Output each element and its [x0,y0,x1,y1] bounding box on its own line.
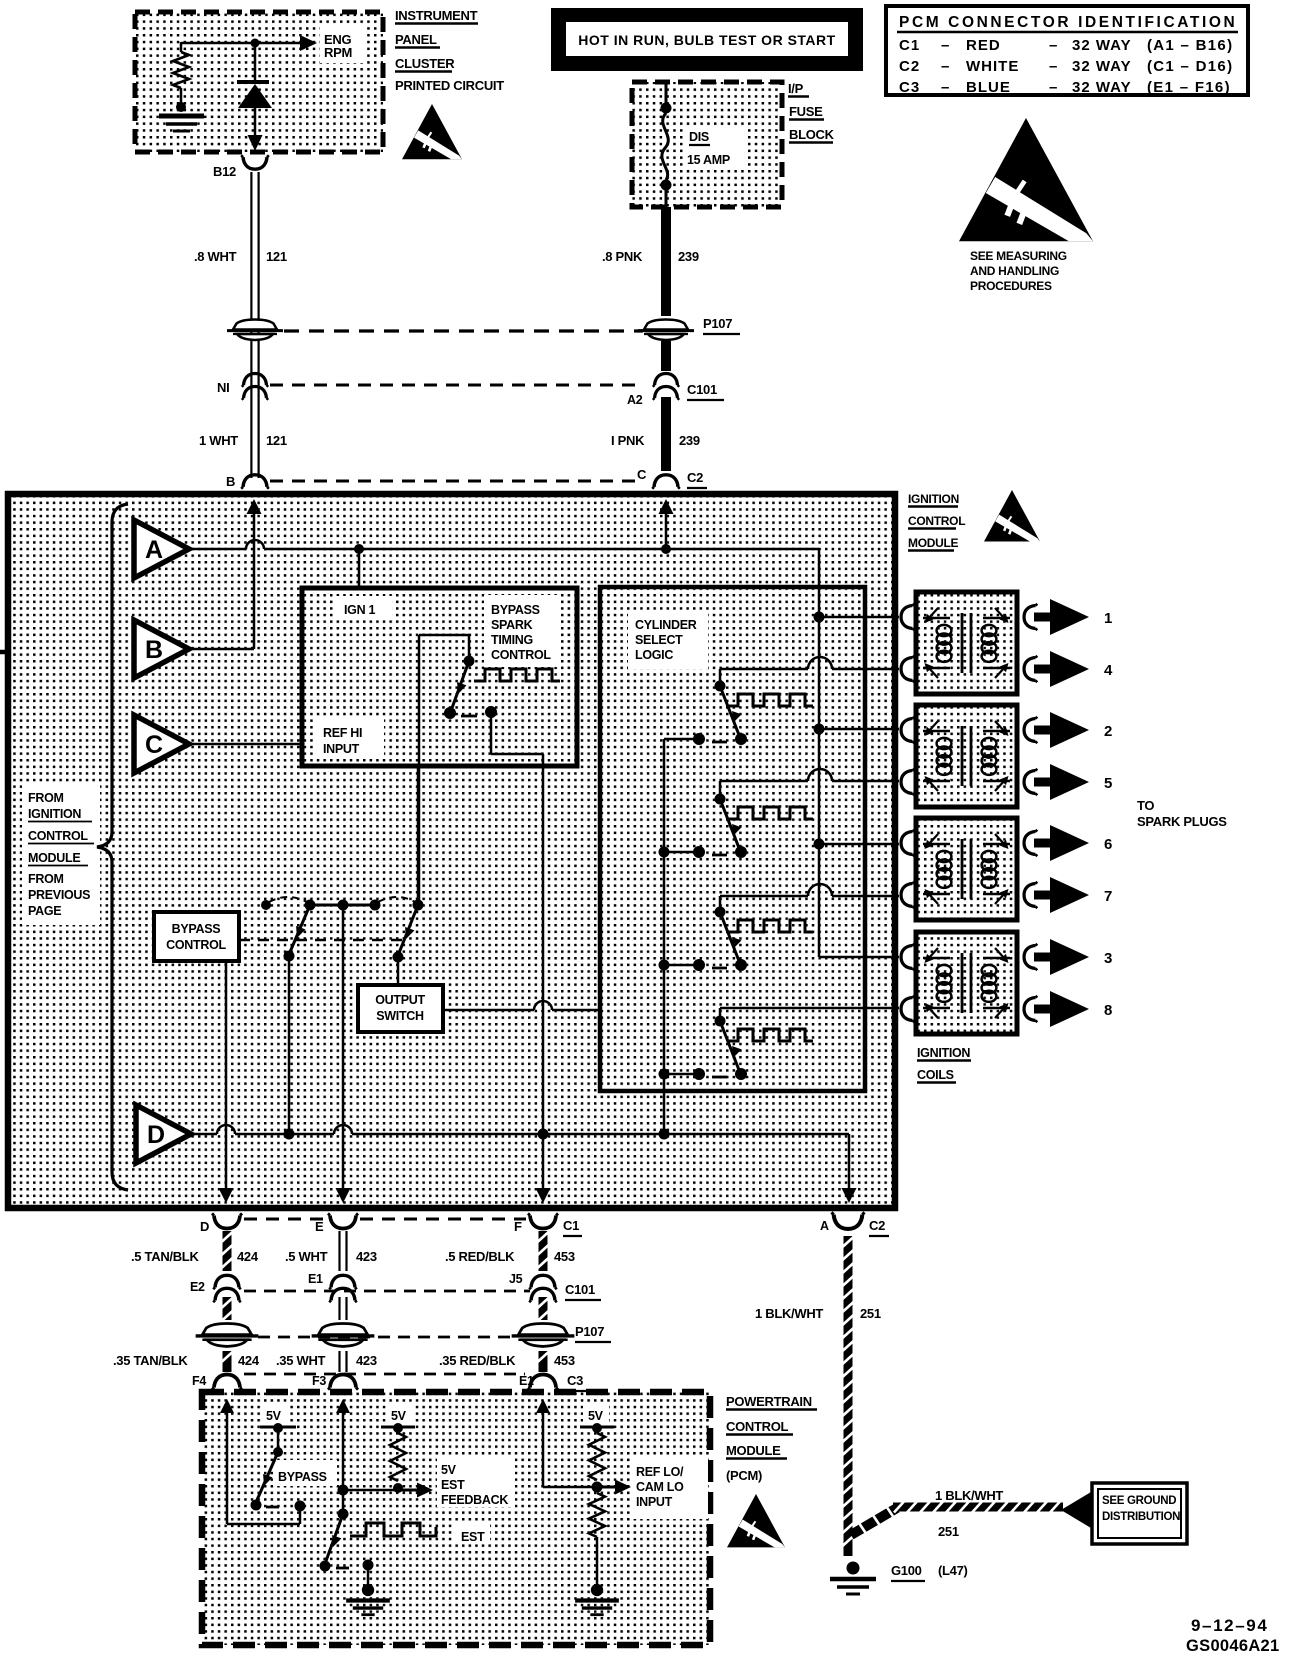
svg-text:INSTRUMENT: INSTRUMENT [395,8,478,23]
svg-text:FEEDBACK: FEEDBACK [441,1493,508,1507]
svg-text:9–12–94: 9–12–94 [1191,1616,1268,1635]
svg-text:DISTRIBUTION: DISTRIBUTION [1102,1511,1180,1523]
svg-text:(A1 – B16): (A1 – B16) [1147,37,1233,54]
svg-text:MODULE: MODULE [908,536,958,550]
svg-text:B: B [226,474,235,489]
svg-text:E2: E2 [190,1280,205,1294]
svg-text:239: 239 [678,249,699,264]
svg-text:C1: C1 [899,37,920,54]
svg-text:C3: C3 [899,79,920,96]
svg-text:CLUSTER: CLUSTER [395,56,455,71]
svg-text:F4: F4 [192,1374,206,1388]
svg-text:A2: A2 [627,393,643,407]
svg-text:INPUT: INPUT [636,1495,673,1509]
svg-text:B12: B12 [213,164,236,179]
svg-text:239: 239 [679,433,700,448]
svg-text:CONTROL: CONTROL [28,829,88,843]
svg-text:FROM: FROM [28,791,64,805]
svg-text:.35 WHT: .35 WHT [276,1353,326,1368]
svg-text:RED: RED [966,37,1001,54]
svg-text:15 AMP: 15 AMP [687,153,730,167]
svg-text:POWERTRAIN: POWERTRAIN [726,1394,812,1409]
svg-text:MODULE: MODULE [726,1443,781,1458]
svg-text:PAGE: PAGE [28,904,61,918]
svg-text:453: 453 [554,1249,575,1264]
svg-text:E1: E1 [308,1272,323,1286]
svg-text:D: D [147,1121,165,1149]
svg-text:5V: 5V [441,1463,457,1477]
svg-text:SEE GROUND: SEE GROUND [1102,1495,1176,1507]
svg-text:EST: EST [441,1478,465,1492]
svg-text:P107: P107 [703,316,732,331]
svg-text:CONTROL: CONTROL [726,1419,789,1434]
svg-text:.8 PNK: .8 PNK [602,249,643,264]
svg-text:DIS: DIS [689,130,709,144]
svg-text:C3: C3 [567,1373,583,1388]
svg-text:.5 RED/BLK: .5 RED/BLK [445,1249,515,1264]
svg-text:IGN 1: IGN 1 [344,603,375,617]
svg-text:1 BLK/WHT: 1 BLK/WHT [935,1488,1003,1503]
svg-text:IGNITION: IGNITION [917,1046,970,1060]
svg-text:FROM: FROM [28,872,64,886]
svg-text:32 WAY: 32 WAY [1072,79,1132,96]
svg-text:REF LO/: REF LO/ [636,1465,684,1479]
svg-text:.5 WHT: .5 WHT [285,1249,328,1264]
svg-text:A: A [145,536,163,564]
svg-text:–: – [941,37,949,54]
svg-text:1 WHT: 1 WHT [199,433,238,448]
svg-text:J5: J5 [509,1272,523,1286]
svg-text:TO: TO [1137,798,1154,813]
svg-text:E: E [315,1219,324,1234]
svg-text:NI: NI [217,380,229,395]
svg-text:EST: EST [461,1530,485,1544]
svg-text:TIMING: TIMING [491,633,533,647]
svg-text:C: C [145,731,163,759]
svg-text:SELECT: SELECT [635,633,683,647]
svg-text:251: 251 [938,1524,959,1539]
svg-text:8: 8 [1104,1002,1112,1019]
svg-text:SWITCH: SWITCH [376,1009,424,1023]
svg-text:424: 424 [237,1249,259,1264]
svg-text:5V: 5V [588,1409,604,1423]
svg-text:PROCEDURES: PROCEDURES [970,279,1052,293]
svg-text:G100: G100 [891,1563,922,1578]
svg-text:–: – [941,58,949,75]
svg-text:5: 5 [1104,775,1112,792]
svg-text:.8 WHT: .8 WHT [194,249,237,264]
svg-text:PREVIOUS: PREVIOUS [28,888,90,902]
svg-text:WHITE: WHITE [966,58,1019,75]
svg-text:SPARK PLUGS: SPARK PLUGS [1137,814,1227,829]
svg-text:.35 TAN/BLK: .35 TAN/BLK [113,1353,188,1368]
svg-text:251: 251 [860,1306,881,1321]
svg-text:SEE MEASURING: SEE MEASURING [970,249,1067,263]
svg-text:IGNITION: IGNITION [28,807,81,821]
svg-text:I PNK: I PNK [611,433,645,448]
svg-text:E1: E1 [519,1374,534,1388]
svg-text:BYPASS: BYPASS [172,922,221,936]
svg-text:3: 3 [1104,950,1112,967]
svg-text:C2: C2 [869,1218,885,1233]
svg-text:423: 423 [356,1353,377,1368]
svg-text:BLOCK: BLOCK [789,127,835,142]
svg-text:C101: C101 [565,1282,595,1297]
svg-text:AND HANDLING: AND HANDLING [970,264,1059,278]
svg-text:(PCM): (PCM) [726,1468,762,1483]
svg-text:423: 423 [356,1249,377,1264]
svg-text:CONTROL: CONTROL [491,648,551,662]
svg-text:–: – [1049,37,1057,54]
svg-text:OUTPUT: OUTPUT [375,993,425,1007]
svg-text:121: 121 [266,433,287,448]
svg-text:(C1 – D16): (C1 – D16) [1147,58,1233,75]
svg-text:P107: P107 [575,1324,604,1339]
svg-text:7: 7 [1104,888,1112,905]
svg-text:–: – [1049,58,1057,75]
svg-text:D: D [200,1219,209,1234]
svg-text:2: 2 [1104,723,1112,740]
svg-text:LOGIC: LOGIC [635,648,673,662]
svg-text:A: A [820,1219,829,1233]
svg-text:FUSE: FUSE [789,104,823,119]
svg-text:–: – [941,79,949,96]
svg-text:C2: C2 [687,470,703,485]
svg-text:BYPASS: BYPASS [491,603,540,617]
svg-text:.5 TAN/BLK: .5 TAN/BLK [131,1249,199,1264]
svg-text:SPARK: SPARK [491,618,533,632]
svg-text:121: 121 [266,249,287,264]
svg-text:RPM: RPM [324,45,352,60]
svg-text:COILS: COILS [917,1068,954,1082]
svg-text:4: 4 [1104,662,1113,679]
svg-text:PANEL: PANEL [395,32,437,47]
svg-text:MODULE: MODULE [28,851,80,865]
svg-text:B: B [145,636,163,664]
svg-text:IGNITION: IGNITION [908,492,959,506]
svg-text:CONTROL: CONTROL [908,514,965,528]
svg-text:PRINTED CIRCUIT: PRINTED CIRCUIT [395,78,504,93]
svg-text:.35 RED/BLK: .35 RED/BLK [439,1353,516,1368]
svg-text:C: C [637,467,647,482]
svg-text:CYLINDER: CYLINDER [635,618,697,632]
svg-text:(L47): (L47) [938,1563,968,1578]
svg-text:32 WAY: 32 WAY [1072,37,1132,54]
svg-text:424: 424 [238,1353,260,1368]
svg-text:CONTROL: CONTROL [166,938,226,952]
svg-text:HOT IN RUN, BULB TEST OR START: HOT IN RUN, BULB TEST OR START [578,32,835,48]
svg-text:453: 453 [554,1353,575,1368]
svg-text:5V: 5V [391,1409,407,1423]
svg-text:5V: 5V [266,1409,282,1423]
svg-text:INPUT: INPUT [323,742,360,756]
svg-text:C2: C2 [899,58,920,75]
svg-text:I/P: I/P [788,81,804,96]
svg-text:REF HI: REF HI [323,726,362,740]
svg-text:1 BLK/WHT: 1 BLK/WHT [755,1306,823,1321]
svg-text:BYPASS: BYPASS [278,1470,327,1484]
svg-text:F3: F3 [312,1374,326,1388]
svg-text:32 WAY: 32 WAY [1072,58,1132,75]
svg-text:6: 6 [1104,836,1112,853]
svg-text:GS0046A21: GS0046A21 [1186,1637,1280,1655]
svg-text:–: – [1049,79,1057,96]
svg-text:PCM CONNECTOR IDENTIFICATION: PCM CONNECTOR IDENTIFICATION [899,14,1237,31]
svg-text:F: F [514,1219,522,1234]
svg-text:1: 1 [1104,610,1112,627]
svg-text:C1: C1 [563,1218,579,1233]
svg-text:C101: C101 [687,382,717,397]
svg-text:(E1 – F16): (E1 – F16) [1147,79,1231,96]
svg-text:BLUE: BLUE [966,79,1011,96]
svg-text:CAM LO: CAM LO [636,1480,684,1494]
